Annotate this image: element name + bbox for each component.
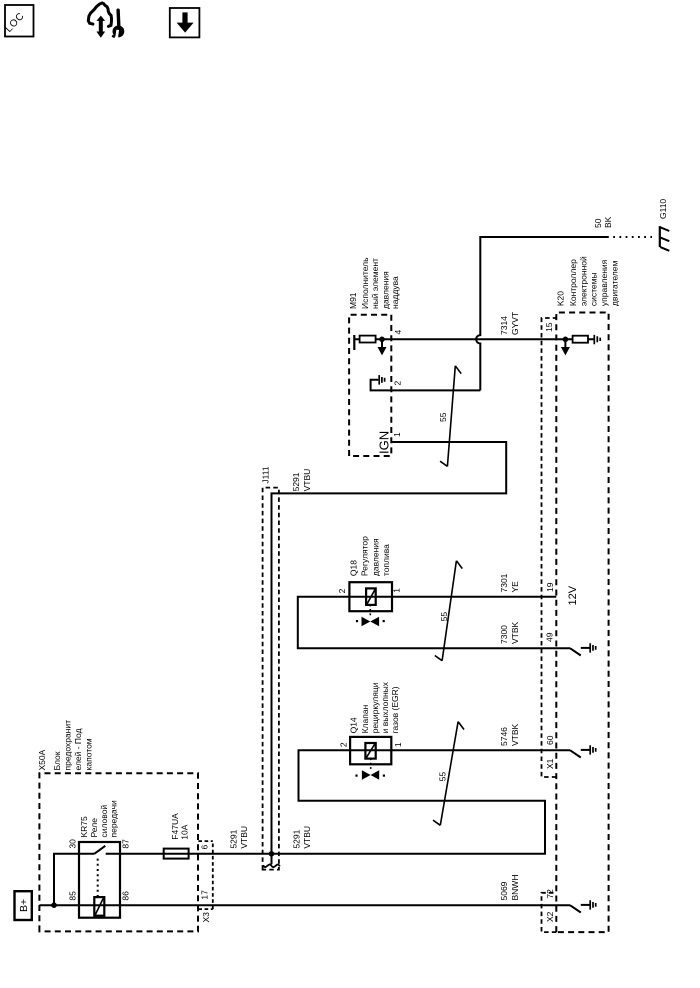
svg-text:электронной: электронной — [579, 256, 589, 306]
svg-text:Исполнитель: Исполнитель — [360, 257, 370, 309]
label K20 ECM — [556, 256, 620, 306]
wire relay pin 87 through fuse, connector X3-6, 5291 VTBU staircase to Q14 pin 2 — [106, 750, 545, 854]
battery terminal B+ — [15, 891, 32, 920]
M91 internal driver: junction, arrow, resistor, supply bar — [354, 335, 391, 355]
svg-text:X2: X2 — [545, 911, 555, 922]
svg-text:10A: 10A — [180, 824, 190, 839]
EGR valve Q14 box — [350, 737, 392, 764]
svg-text:KR75: KR75 — [79, 816, 89, 838]
svg-text:предохранит: предохранит — [63, 720, 73, 771]
harness 55 slash near Q18 — [435, 561, 463, 661]
svg-text:5291: 5291 — [291, 472, 301, 491]
label 5291 VTBU (at J111 right end) — [291, 469, 312, 492]
svg-text:X50A: X50A — [37, 749, 47, 770]
boost pressure actuator M91 dashed box — [349, 315, 391, 456]
svg-text:VTBU: VTBU — [302, 469, 312, 492]
K20 internal driver at pin 15: junction, arrow, resistor, ground — [561, 335, 600, 356]
svg-text:силовой: силовой — [99, 805, 109, 838]
connector X3 dashed strip — [198, 841, 212, 909]
connector X2 dashed boxlet — [542, 893, 557, 932]
svg-text:Q14: Q14 — [349, 717, 359, 733]
label M91 — [348, 257, 400, 309]
svg-text:ный элемент: ный элемент — [370, 258, 380, 309]
label X50A fuse block — [37, 720, 94, 771]
wire 50 BK dotted continuation — [607, 236, 652, 238]
svg-text:B+: B+ — [18, 899, 30, 912]
svg-text:85: 85 — [68, 891, 78, 901]
svg-text:2: 2 — [392, 381, 402, 386]
svg-text:рециркуляци: рециркуляци — [370, 682, 380, 733]
splice J111 dashed strip — [263, 488, 279, 870]
harness 55 slash near Q14 — [433, 722, 464, 826]
svg-text:X3: X3 — [201, 912, 211, 923]
svg-text:BK: BK — [603, 216, 613, 228]
svg-text:VTBU: VTBU — [239, 826, 249, 849]
svg-text:60: 60 — [545, 735, 555, 745]
label 5746 VTBK — [499, 723, 520, 746]
svg-text:Контроллер: Контроллер — [568, 259, 578, 306]
svg-text:Блок: Блок — [52, 751, 62, 770]
label Q18 fuel pressure regulator — [349, 536, 392, 576]
svg-text:2: 2 — [337, 588, 347, 593]
Q18 valve bowtie — [356, 617, 385, 626]
K20 internal switch to ground at pin 60 — [570, 745, 596, 757]
fuel pressure regulator Q18 box — [349, 582, 392, 611]
svg-text:YE: YE — [510, 581, 520, 593]
Q14 valve link dotted — [370, 759, 372, 769]
svg-text:7301: 7301 — [499, 573, 509, 592]
wire 7314 GYVT M91 pin 4 to K20 pin 15 — [392, 338, 566, 340]
svg-text:55: 55 — [437, 772, 447, 782]
svg-text:управления: управления — [599, 259, 609, 306]
label 7300 VTBK — [499, 621, 520, 644]
svg-text:давления: давления — [381, 271, 391, 309]
svg-text:55: 55 — [439, 612, 449, 622]
Q18 valve link dotted — [369, 605, 371, 615]
svg-text:Регулятор: Регулятор — [360, 536, 370, 576]
label 50 BK — [593, 216, 613, 228]
icon vehicle with double arrow and wrench — [88, 3, 124, 38]
svg-text:двигателем: двигателем — [610, 260, 620, 306]
engine control module K20 dashed box — [556, 313, 608, 933]
Q18 solenoid coil — [366, 588, 376, 605]
svg-text:наддува: наддува — [390, 276, 400, 309]
junction B+ branch — [51, 902, 57, 908]
wire 7301 YE Q18 pin 1 to K20 pin 19 — [392, 596, 557, 598]
svg-text:49: 49 — [545, 632, 555, 642]
svg-text:елей - Под: елей - Под — [73, 728, 83, 770]
K20 internal switch to ground at pin 49 — [570, 643, 596, 655]
svg-text:30: 30 — [68, 839, 78, 849]
junction splice J111 dot — [269, 851, 275, 857]
label 5069 BNWH — [499, 875, 520, 901]
svg-text:M91: M91 — [348, 292, 358, 309]
relay KR75 armature dotted link — [97, 857, 99, 897]
svg-text:VTBK: VTBK — [510, 621, 520, 644]
svg-text:F47UA: F47UA — [170, 813, 180, 840]
svg-text:72: 72 — [545, 889, 555, 899]
Q14 valve bowtie — [355, 770, 385, 779]
svg-text:и выхлопных: и выхлопных — [380, 681, 390, 733]
svg-text:50: 50 — [593, 218, 603, 228]
svg-text:5746: 5746 — [499, 727, 509, 746]
svg-text:IGN: IGN — [377, 431, 392, 454]
svg-text:19: 19 — [545, 582, 555, 592]
svg-text:J111: J111 — [261, 466, 271, 483]
svg-text:VTBU: VTBU — [302, 826, 312, 849]
svg-text:17: 17 — [200, 890, 210, 900]
ground G110 — [660, 226, 670, 251]
Q14 solenoid coil — [365, 743, 375, 759]
svg-text:VTBK: VTBK — [510, 723, 520, 746]
label relay KR75 — [79, 800, 119, 838]
relay KR75 switch blade — [94, 846, 105, 854]
svg-text:5069: 5069 — [499, 881, 509, 900]
svg-text:55: 55 — [438, 412, 448, 422]
svg-text:G110: G110 — [658, 199, 668, 219]
relay KR75 box — [79, 842, 120, 918]
svg-text:давления: давления — [371, 538, 381, 576]
svg-text:2: 2 — [339, 742, 349, 747]
svg-text:7300: 7300 — [499, 625, 509, 644]
icon LOC box — [3, 5, 33, 37]
svg-text:5291: 5291 — [291, 829, 301, 848]
svg-text:6: 6 — [200, 845, 210, 850]
svg-text:15: 15 — [544, 322, 554, 332]
label Q14 EGR valve — [349, 681, 401, 733]
svg-text:86: 86 — [121, 891, 131, 901]
svg-text:87: 87 — [121, 839, 131, 849]
relay KR75 coil — [94, 897, 104, 916]
svg-text:топлива: топлива — [381, 544, 391, 576]
svg-text:X1: X1 — [545, 758, 555, 769]
wire 7300 VTBK Q18 pin 2 to K20 pin 49 — [298, 597, 570, 649]
harness 55 slash near M91 — [438, 366, 461, 467]
wire B+ feed / 5069 BNWH run to K20 pin 72 — [39, 904, 570, 906]
label 7314 GYVT — [499, 312, 520, 335]
svg-text:5291: 5291 — [229, 829, 239, 848]
fuse block X50A dashed box — [39, 773, 198, 931]
splice J111 stub and crimp squiggle — [271, 854, 273, 865]
icon down-arrow box — [170, 8, 200, 37]
svg-text:газов (EGR): газов (EGR) — [390, 686, 400, 733]
svg-text:K20: K20 — [556, 291, 566, 306]
svg-text:BNWH: BNWH — [510, 875, 520, 901]
wire branch to relay pin 30 — [54, 854, 94, 905]
fuse F47UA 10A — [164, 849, 189, 859]
svg-text:1: 1 — [391, 588, 401, 593]
schematic (landscape coordinates rotated 90deg CCW onto portrait page) — [15, 199, 670, 933]
wire 50 BK M91 pin 2 to G110 (hop over 7314) — [392, 237, 608, 390]
svg-text:1: 1 — [393, 742, 403, 747]
label F47UA 10A — [170, 813, 190, 840]
connector X1 dashed strip — [542, 318, 557, 777]
svg-text:1: 1 — [392, 432, 402, 437]
svg-text:передачи: передачи — [109, 800, 119, 838]
svg-text:4: 4 — [393, 330, 403, 335]
wire 5291 VTBU splice to M91 IGN pin 1 — [272, 442, 507, 854]
svg-text:GYVT: GYVT — [510, 312, 520, 335]
K20 internal switch to ground at pin 72 — [570, 900, 596, 912]
svg-text:Реле: Реле — [89, 818, 99, 838]
label 5291 VTBU (below splice) — [291, 826, 312, 849]
svg-text:12V: 12V — [567, 585, 579, 605]
svg-text:Клапан: Клапан — [360, 704, 370, 733]
wire 5746 VTBK Q14 pin 1 to K20 pin 60 — [392, 749, 571, 751]
label 7301 YE — [499, 573, 520, 592]
svg-text:системы: системы — [589, 272, 599, 306]
svg-text:капотом: капотом — [84, 738, 94, 770]
svg-text:Q18: Q18 — [349, 560, 359, 576]
svg-text:7314: 7314 — [499, 316, 509, 335]
label 5291 VTBU (above splice) — [229, 826, 250, 849]
M91 internal ground at pin 2 — [371, 375, 392, 390]
